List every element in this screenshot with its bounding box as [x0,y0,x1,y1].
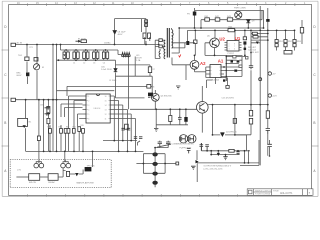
svg-text:COMBINED CHOKE L5: COMBINED CHOKE L5 [172,144,195,146]
wire output cap ladder rails [143,154,165,174]
resistor row r5 [72,129,75,134]
diode D17 dark [237,60,240,62]
diode D8 top [193,12,197,16]
svg-text:6: 6 [234,49,235,51]
wire U1 top drop [234,30,236,40]
wire sense chain [235,53,251,135]
resistor R28 [246,57,249,60]
wire aux rail 1 [116,75,153,77]
transistor Q6 [151,93,159,101]
resistor row r2 [60,129,63,134]
wire into S1 [16,176,28,178]
svg-text:3: 3 [229,49,230,51]
svg-text:R 150K: R 150K [110,80,118,82]
inductor L1 base [122,55,131,57]
resistor R7 vert [148,67,151,73]
junction dots primary bus B [194,30,196,32]
test point TP0 [259,78,262,81]
switch box S1 [29,174,40,181]
test point TP1 stub [267,73,269,75]
label leader line [157,144,171,147]
resistor R71 [37,136,40,141]
svg-text:16: 16 [105,96,107,98]
junction dots sec bus [206,150,208,152]
divider R53a [293,40,296,43]
diode D13 on x268 [266,19,269,22]
fan M1 [235,11,242,18]
red tick mark [179,54,181,57]
IC U1 pins [225,43,242,51]
wire diode D5 stub [115,60,117,98]
wire U2 lower rail [205,54,243,56]
wire divider branch [47,100,49,152]
net arrow ACL [76,40,81,42]
junction dots AC bus [26,44,28,46]
divider R52a [284,40,287,43]
diode D15 dark [186,41,189,45]
wire sense col drop [250,30,252,52]
thermistor TH1 [25,57,29,61]
switch box S2 [48,174,58,181]
svg-text:AC IN: AC IN [17,42,23,45]
svg-text:MAIN PLATFORM: MAIN PLATFORM [77,182,94,185]
svg-text:1: 1 [88,96,89,98]
cap row stubs [64,50,107,60]
transistor Q5 body [212,40,216,47]
lamp LP3 [61,163,66,168]
wire right mid bus [234,105,236,135]
junction dots low bus [25,99,27,101]
fan blades [236,13,241,17]
svg-text:R7: R7 [153,69,155,71]
wire lower bus mid [26,150,144,152]
svg-text:12: 12 [105,114,107,116]
resistor R44 series on bus [228,29,235,32]
svg-text:C3: C3 [93,62,95,64]
resistor R75 [125,124,129,129]
wire TL494 left feed 2 [65,108,83,118]
wire ladder rungs [143,154,165,174]
varistor lead mark [35,65,39,69]
dashed enclosure [10,160,111,188]
svg-text:11: 11 [105,119,107,121]
svg-text:R47: R47 [66,127,69,129]
IC U4 pin ticks [210,67,221,78]
svg-text:IS1: IS1 [29,122,32,124]
wire top-left sb vertical [141,19,143,32]
IC U1 box [227,41,239,52]
wire TL494 left pin drops [50,96,83,151]
IC U3 pin ticks [86,96,110,119]
svg-text:L IN: L IN [17,170,21,172]
wire standby left drop [195,8,202,28]
lamp LP1 [34,163,39,168]
wire IC3 right pins [221,67,224,78]
wire output bus stub vert [247,150,249,163]
svg-text:POWER SCHEMA: POWER SCHEMA [255,193,271,196]
transistor Q6 body [154,95,157,100]
wire rc pair drop [145,37,150,45]
junction dots lower mid [43,151,45,153]
zone letters left [4,25,7,173]
wire ladder left stub [136,163,143,165]
capacitor C40 left pair b [45,112,51,116]
output cap E1 [152,152,157,156]
capacitor C61 [267,144,272,146]
resistor R13 [159,39,162,42]
resistor R9b [145,24,148,27]
svg-text:1.0uF 250V: 1.0uF 250V [101,69,112,71]
connector J1 AC inlet [11,43,16,46]
buzzer BZ1 dark [85,167,92,171]
svg-text:Q6 KSC945: Q6 KSC945 [161,96,173,98]
diode D18 dark [234,70,237,72]
svg-text:FQPF12N60: FQPF12N60 [180,148,193,150]
test point TP1 [268,72,271,75]
resistor R35 [233,119,236,124]
svg-text:+12V: +12V [272,96,278,98]
zone ticks right [311,50,319,146]
gnd output [191,166,196,169]
rc pair group 4 [93,52,96,58]
resistor R26 [233,55,236,58]
wire NTC to bridge [26,62,28,73]
wire standby right verticals [262,10,264,28]
rc pair group 5 [102,52,105,58]
IC U3 inner text [88,96,106,121]
wire divider col 2 [285,30,287,50]
svg-text:R8: R8 [152,87,154,89]
transistor Q10 [197,102,209,114]
sheet inner frame [9,5,312,196]
resistor R62 [249,118,252,124]
wire transformer primary drop [128,56,130,109]
zone ticks top [28,3,295,6]
junction dots mid right [250,104,252,106]
stub label net [138,141,141,146]
wire standby lower rail [201,19,262,21]
wire divider col 1 [276,30,278,50]
svg-text:400V: 400V [118,34,123,36]
opto U5 diode [23,125,26,128]
svg-text:R49: R49 [48,127,51,129]
IC U4 box [210,65,221,78]
svg-text:PWR CONN: PWR CONN [234,7,246,9]
resistor row r1 [49,129,52,134]
lamp vertical feeds [39,160,93,167]
test point TP2 [268,94,271,97]
lamp stubs 1 [36,160,41,163]
resistor row r7 [82,129,85,134]
capacitor C42 [127,128,130,130]
svg-text:F1 250V: F1 250V [78,38,86,40]
wire T1 left taps [155,40,165,58]
wire AC line bus [15,44,159,46]
svg-text:6: 6 [88,119,89,121]
svg-text:250VAC: 250VAC [104,42,111,45]
wire below-triangle vertical [196,164,198,183]
wire TL494 right pin stubs [110,96,135,119]
wire r90 link [70,173,75,175]
svg-text:RT1: RT1 [30,47,33,49]
svg-text:C2: C2 [83,62,85,64]
capacitor C60 [266,129,270,135]
svg-text:C1: C1 [73,62,75,64]
rc pair group 3 [83,52,86,58]
sec resistor R81 on bus [229,149,234,152]
resistor R2 small [34,58,38,62]
junction dots ladder [143,163,145,165]
svg-text:R48: R48 [59,127,62,129]
wire S1-S2 [40,176,48,178]
resistor R42 [215,18,220,21]
varistor RV1 [34,64,40,70]
wire TL494 feed top 2 [57,90,115,92]
wire TL494 right verticals [114,96,135,151]
net box wire [227,78,229,86]
wire 12V bus drops [202,143,245,163]
resistor R41 [205,18,210,21]
wire opto branch drop [25,100,27,152]
mosfet Q9 gate [189,136,194,142]
diode D21 dark [220,133,225,137]
svg-text:SAMPLE CORP LTD: SAMPLE CORP LTD [255,190,272,193]
wire A2 rail [195,71,206,73]
sense diode Dc [256,42,259,45]
dark blob D16 [244,48,247,50]
sense resistor Rb [253,36,258,39]
wire aux vertical [151,76,153,98]
wire long vertical x268 [267,8,269,156]
wire feedback rungs [221,57,246,78]
wire bridge down [27,77,29,85]
svg-text:B: B [4,121,6,125]
svg-text:14: 14 [105,105,107,107]
svg-text:4: 4 [88,110,89,112]
resistor R21 [194,40,197,44]
wire ground bus mid [103,140,137,142]
sec diode D31 dark [217,153,220,156]
wire Q7 bus [130,108,197,110]
wire varistor drop [36,45,38,100]
wire primary bus B [188,29,295,31]
label box right [284,51,292,55]
output cap E3 [152,172,157,176]
lamp stubs 2 [63,160,68,163]
wire return bus left drop [196,150,198,160]
wire Q6 circle stub [148,90,155,109]
wire lamp branch drop [38,100,40,160]
transistor Q5 [210,38,220,48]
svg-text:+5V: +5V [272,74,276,76]
wire ladder right stub [165,163,176,165]
transistor Q10 body [200,103,205,111]
sec gnd sym [223,155,227,160]
wire IC3 left pins [206,67,210,78]
transformer T1 left winding [164,40,166,59]
capacitor C44 [139,137,142,139]
svg-text:15: 15 [105,101,107,103]
resistor R85 stub box [176,162,179,165]
svg-text:2.2A: 2.2A [136,59,141,62]
svg-text:D21 FR155: D21 FR155 [226,131,237,133]
svg-text:3: 3 [88,105,89,107]
sec cap C53 [236,151,239,155]
IC U1 inner text [229,44,236,51]
wire Q7 parts drops [170,109,186,125]
wire bus B left drop [172,28,180,53]
svg-text:600V: 600V [17,75,22,77]
divider R53b [293,44,296,47]
diode-cap pair group 1 [63,52,66,58]
sec cap C50 [187,149,191,154]
wire ladder top caps [155,141,168,148]
wire Q7 lower rail [156,124,188,126]
wire T1 right taps [172,28,195,48]
dark blob cap [223,79,225,81]
svg-text:TPS 105: TPS 105 [87,165,96,167]
mosfet Q9 [188,135,196,143]
ground sym q7 [154,128,158,131]
wire lamp2 feed [64,151,66,161]
connector J2 aux [11,98,16,101]
wire Q10 drop [201,86,203,133]
capacitor C41 [121,128,124,130]
wire long vertical x260 [259,6,261,165]
capacitor C21 [243,37,246,40]
cap C54 top b [166,142,170,146]
capacitor C43 [134,137,137,139]
trunk dots [226,56,227,77]
svg-text:R45: R45 [81,125,84,127]
wire primary bus A [179,27,263,29]
transformer T1 right winding [172,30,174,49]
lamp LP4 [66,163,71,168]
diode D21 bar [220,132,224,134]
title logo cell [248,190,252,194]
divider R51a [275,40,278,43]
svg-text:2: 2 [88,101,89,103]
junction dots u2 rail [214,55,216,57]
junction dots primary bus A [194,27,196,29]
wire transformer aux drop [134,57,136,77]
wire A2 transistor drops [172,55,195,80]
wire standby feed R [145,19,147,45]
svg-text:ANL-C4771: ANL-C4771 [280,192,293,195]
svg-text:ZD1 6V2: ZD1 6V2 [251,52,260,54]
capacitor C30 [249,64,253,69]
svg-text:A2: A2 [200,61,206,66]
svg-text:5: 5 [88,114,89,116]
wire aux rail 0 [116,65,151,76]
wire ladder center [154,148,156,188]
diode D6 dark [148,93,153,97]
wire left cap branch [43,100,45,152]
wire AC neutral bus [61,45,122,55]
resistor R9a [145,20,148,23]
wire S2 out [58,168,66,177]
mosfet Q8 [179,135,187,143]
resistor R90 [66,171,69,176]
wire long vertical 2 [56,45,58,152]
resistor R14 [159,45,162,48]
capacitor C10 [148,33,151,39]
resistor R61 [249,110,252,116]
resistor R72 [47,107,50,114]
svg-text:SW-ON: SW-ON [29,182,37,184]
diode D20 dark [184,117,187,122]
wire IC3 bottom drop [207,78,216,89]
svg-text:C4: C4 [103,62,105,64]
wire long vertical 1 [52,45,54,152]
wire Q7 gnd drop [155,109,157,128]
svg-text:SW-AC: SW-AC [48,181,55,184]
wire R21 drop [194,30,196,55]
junction dots neutral bus [65,49,67,51]
diode D14 dark [231,60,234,62]
wire right edge branch [301,20,303,44]
IC U3 notch [97,94,100,96]
diode D9 [246,20,250,23]
svg-text:B: B [313,121,315,125]
cap C54 top a [158,142,162,146]
wire Q5 drop [214,30,217,55]
diode D5 [114,69,118,72]
zone ticks left [2,50,10,146]
transistor Q4 A2 [190,60,199,69]
title block dividers [254,189,308,196]
wire return bus [197,162,259,164]
svg-text:M: M [42,67,44,69]
diode D12 [243,41,246,44]
svg-text:U1: U1 [235,36,241,41]
aux winding L3 [158,49,161,59]
ground sym mid [176,86,180,89]
wire Q10 right link [208,104,268,106]
fuse F1 [81,40,87,43]
capacitor C31 [178,116,182,122]
svg-text:U2: U2 [219,36,225,41]
wire TL494 left feed 1 [61,104,83,117]
wire aux rail 3 [116,97,145,99]
wire top rail standby [195,9,264,11]
resistor R63 on x268 [266,111,269,119]
svg-text:A1: A1 [218,59,224,64]
resistor row r3 [64,129,67,134]
sec cap C52 [205,145,209,151]
svg-text:(+5V,+12V,-5V,-12V): (+5V,+12V,-5V,-12V) [204,168,223,170]
capacitor C40 left pair a [45,106,51,110]
wire U1 right drop [244,30,246,55]
resistor row r4 [67,129,70,134]
sec cap C51 [200,143,204,151]
svg-text:C15 472/1KV: C15 472/1KV [222,98,235,100]
wire left vertical from bus to NTC [26,45,28,57]
resistor R27 [239,65,242,67]
junction dots q7 bus [155,108,157,110]
diode D2 standby [113,31,116,35]
transformer T1 core [167,28,169,58]
mosfet Q8 gate [181,136,186,142]
resistor R43 [227,18,232,21]
junction triangle dark [196,160,199,163]
wire secondary mid rail [211,154,240,156]
wire divider col 3 [294,30,296,50]
wire x268 cap tail [269,140,271,156]
wire return corner right [240,140,259,165]
wire standby feed L [115,19,147,45]
diode D40 [75,173,79,176]
